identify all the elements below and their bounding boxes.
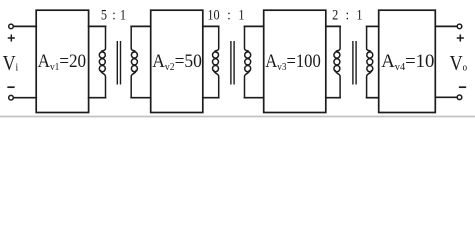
wire T3 to A4 bottom <box>367 97 379 99</box>
amplifier box A3 <box>264 10 326 112</box>
transformer T3 primary coil <box>334 26 340 97</box>
input terminal bottom circle <box>9 95 14 100</box>
input terminal top circle <box>9 24 14 29</box>
amplifier box A4 <box>379 10 436 112</box>
svg-text:1: 1 <box>120 6 126 22</box>
svg-text:1: 1 <box>356 6 362 22</box>
wire A3 to T3 bottom <box>326 97 340 99</box>
transformer T1 primary coil <box>99 26 105 97</box>
wire input top <box>14 25 36 27</box>
svg-text::: : <box>112 6 115 22</box>
svg-text:Av3=100: Av3=100 <box>265 50 321 73</box>
transformer T2 core <box>230 42 232 84</box>
transformer T3 secondary coil <box>367 26 373 97</box>
plus sign input <box>9 35 15 41</box>
transformer T3 core <box>352 42 354 84</box>
transformer T1 core <box>116 42 118 84</box>
svg-text:10: 10 <box>207 6 219 22</box>
svg-text:5: 5 <box>101 6 107 22</box>
transformer T1 secondary coil <box>131 26 137 97</box>
label 10 : 1 <box>207 6 244 22</box>
wire T1 to A2 top <box>131 25 151 27</box>
svg-text:1: 1 <box>238 6 244 22</box>
wire A2 to T2 top <box>203 25 219 27</box>
transformer T2 primary coil <box>213 26 219 97</box>
svg-text:Vi: Vi <box>3 52 19 76</box>
svg-text:Av2=50: Av2=50 <box>152 50 202 73</box>
wire input bottom <box>14 97 36 99</box>
svg-text:Vo: Vo <box>450 52 468 76</box>
plus sign output <box>458 35 464 41</box>
svg-text:Av1=20: Av1=20 <box>38 50 87 73</box>
minus sign input <box>8 86 14 88</box>
wire T2 to A3 bottom <box>245 97 264 99</box>
minus sign output <box>460 86 466 88</box>
svg-text::: : <box>227 6 230 22</box>
output terminal bottom circle <box>457 95 462 100</box>
amplifier box A2 <box>151 10 203 112</box>
wire A1 to T1 bottom <box>89 97 106 99</box>
svg-text:Av4=10: Av4=10 <box>381 51 434 73</box>
scan artifact line <box>0 116 475 118</box>
wire A4 to output top <box>435 25 456 27</box>
wire A3 to T3 top <box>326 25 340 27</box>
label 5 : 1 <box>101 6 126 22</box>
wire T1 to A2 bottom <box>131 97 151 99</box>
label 2 : 1 <box>332 6 363 22</box>
wire A4 to output bottom <box>435 96 456 98</box>
amplifier box A1 <box>36 10 88 112</box>
transformer T2 secondary coil <box>245 26 251 97</box>
svg-text::: : <box>346 6 349 22</box>
output terminal top circle <box>457 24 462 29</box>
wire A2 to T2 bottom <box>203 97 219 99</box>
wire T2 to A3 top <box>245 25 264 27</box>
wire A1 to T1 top <box>89 25 106 27</box>
wire T3 to A4 top <box>367 25 379 27</box>
svg-text:2: 2 <box>332 6 338 22</box>
